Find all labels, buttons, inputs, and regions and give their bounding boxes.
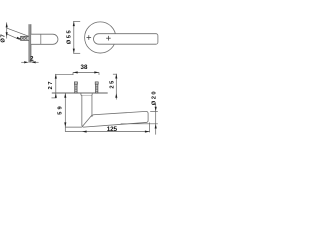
dia20 dimension [121,104,158,135]
grip capsule top view [94,34,158,45]
59 dimension [65,93,82,132]
svg-text:59: 59 [58,105,64,114]
svg-text:Ø55: Ø55 [67,30,73,45]
rose side lines [29,24,31,62]
center cross 2 [106,36,111,41]
center cross 1 [87,35,92,40]
svg-text:25: 25 [110,80,116,89]
svg-text:Ø7: Ø7 [0,34,6,42]
svg-text:27: 27 [48,82,54,90]
svg-text:125: 125 [107,126,118,133]
svg-text:Ø20: Ø20 [151,91,157,105]
dia7 arrows [6,23,22,39]
25 dimension [113,74,117,100]
handle outline (front) [82,96,148,128]
neck joint seam [40,34,42,44]
corner diagonal [82,115,92,127]
neck flange on rose [81,93,92,95]
svg-text:38: 38 [81,64,89,71]
grip capsule side [31,34,58,44]
left screw post [74,82,77,93]
right screw post [95,82,98,93]
2mm dimension [24,61,36,63]
125 dimension [65,123,149,133]
spindle [21,36,30,40]
rose circle [85,22,116,53]
27 dimension [52,74,74,98]
38 dimension [73,72,99,75]
dia7 dimension line [7,22,29,40]
door line [52,92,108,94]
dia55 dimension [73,21,80,53]
